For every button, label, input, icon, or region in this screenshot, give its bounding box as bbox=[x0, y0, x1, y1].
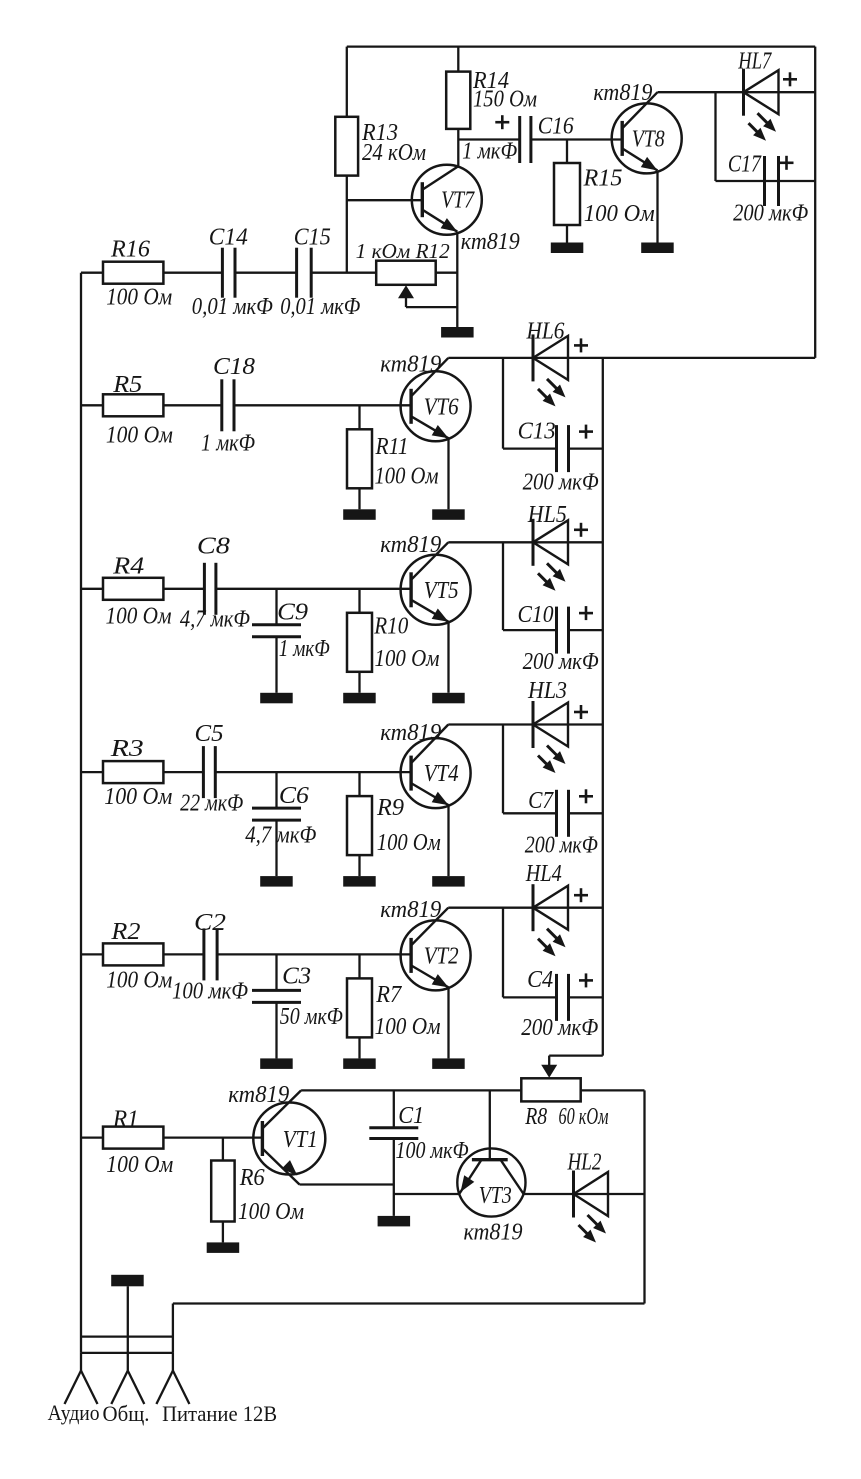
svg-text:C5: C5 bbox=[195, 721, 224, 747]
svg-text:4,7 мкФ: 4,7 мкФ bbox=[245, 823, 316, 849]
wire C16 to VT8 base bbox=[531, 138, 622, 140]
label C15 value bbox=[280, 294, 360, 320]
ground R15 bbox=[551, 243, 584, 254]
label VT6 type bbox=[380, 352, 441, 378]
wire R16 to C14 bbox=[163, 272, 222, 274]
label VT1 bbox=[283, 1127, 318, 1153]
label R3 bbox=[110, 736, 144, 762]
label VT2 bbox=[424, 943, 459, 969]
svg-text:R5: R5 bbox=[112, 372, 142, 398]
capacitor C7 bbox=[557, 790, 569, 837]
label VT1 type bbox=[228, 1082, 289, 1108]
wire C1 riser top bbox=[393, 1090, 395, 1127]
resistor R15 bbox=[554, 163, 580, 225]
label VT8 bbox=[632, 127, 665, 153]
wire HL7 row bbox=[658, 91, 816, 93]
ground C1 bbox=[378, 1216, 411, 1227]
label C9 value bbox=[279, 636, 330, 662]
transistor VT3 bbox=[457, 1148, 525, 1216]
wire C10 row bbox=[503, 629, 557, 631]
ground VT8 emitter bbox=[641, 243, 674, 254]
wire R11 to ground bbox=[358, 488, 360, 509]
wire VT7 emitter to ground bbox=[456, 232, 458, 327]
label Audio terminal bbox=[48, 1400, 100, 1425]
label C16 plus bbox=[495, 115, 509, 129]
wire R7 riser bbox=[358, 954, 360, 978]
wire HL3 junction riser bbox=[502, 725, 504, 814]
label HL6 plus bbox=[574, 338, 588, 352]
potentiometer R8 bbox=[521, 1078, 580, 1101]
wire R10 to ground bbox=[358, 672, 360, 693]
wire R5 row from bus bbox=[81, 404, 103, 406]
capacitor C14 bbox=[222, 248, 235, 298]
label VT5 bbox=[424, 578, 459, 604]
wire VT3 base riser bbox=[489, 1090, 491, 1159]
svg-text:150 Ом: 150 Ом bbox=[473, 87, 537, 113]
ground VT2 emitter bbox=[432, 1058, 465, 1069]
svg-text:100 мкФ: 100 мкФ bbox=[172, 979, 248, 1005]
wire C2 to VT2 base bbox=[217, 953, 411, 955]
LED HL2 light arrows bbox=[579, 1215, 607, 1243]
connector pin audio bbox=[65, 1353, 98, 1404]
connector pin power bbox=[156, 1353, 189, 1404]
wire C14 to C15 bbox=[235, 272, 297, 274]
wire R13 top riser bbox=[346, 47, 348, 117]
label R4 value bbox=[106, 604, 172, 630]
wire HL5 junction riser bbox=[502, 542, 504, 630]
label Power terminal bbox=[162, 1401, 277, 1426]
svg-text:1 мкФ: 1 мкФ bbox=[279, 636, 330, 662]
wire C15 to R12 bbox=[311, 272, 376, 274]
wire HL6 row bbox=[448, 357, 815, 359]
resistor R13 bbox=[335, 117, 358, 176]
wire R13 bottom to R16 row bbox=[346, 176, 348, 273]
svg-text:100 Ом: 100 Ом bbox=[375, 464, 439, 490]
ground VT6 emitter bbox=[432, 509, 465, 520]
label R2 bbox=[110, 919, 140, 945]
svg-text:100 Ом: 100 Ом bbox=[106, 423, 173, 449]
label HL5 bbox=[527, 502, 567, 528]
transistor VT6 bbox=[401, 358, 471, 441]
label C10 value bbox=[523, 649, 599, 675]
svg-text:C18: C18 bbox=[213, 354, 255, 380]
svg-text:кт819: кт819 bbox=[380, 897, 441, 923]
label R7 bbox=[375, 982, 402, 1008]
svg-text:100 Ом: 100 Ом bbox=[375, 1014, 441, 1040]
label C17 value bbox=[733, 201, 808, 227]
label C15 bbox=[294, 225, 331, 251]
svg-text:кт819: кт819 bbox=[461, 229, 520, 255]
label C1 bbox=[398, 1103, 424, 1129]
transistor VT1 bbox=[253, 1090, 325, 1184]
ground R9 bbox=[343, 876, 376, 887]
capacitor C8 bbox=[204, 563, 216, 615]
wire R16 row bbox=[81, 272, 103, 274]
svg-text:100 Ом: 100 Ом bbox=[375, 646, 440, 672]
label HL2 bbox=[567, 1150, 602, 1176]
svg-text:24 кОм: 24 кОм bbox=[362, 140, 426, 166]
svg-text:C4: C4 bbox=[527, 967, 553, 993]
svg-text:VT6: VT6 bbox=[424, 394, 459, 420]
label R9 bbox=[376, 795, 404, 821]
svg-text:C7: C7 bbox=[528, 788, 554, 814]
label C18 bbox=[213, 354, 255, 380]
wire R14 top riser bbox=[457, 47, 459, 72]
wire HL4 row bbox=[448, 907, 603, 909]
LED HL4 light arrows bbox=[538, 929, 566, 957]
label R8 bbox=[524, 1104, 547, 1130]
wire C5 to VT4 base bbox=[215, 771, 411, 773]
svg-text:200 мкФ: 200 мкФ bbox=[523, 649, 599, 675]
svg-text:кт819: кт819 bbox=[380, 720, 441, 746]
svg-text:R6: R6 bbox=[239, 1165, 265, 1191]
wire C13 row bbox=[503, 447, 557, 449]
capacitor C1 bbox=[369, 1128, 418, 1139]
wire R10 riser bbox=[358, 589, 360, 613]
svg-text:R7: R7 bbox=[375, 982, 402, 1008]
potentiometer R12 wiper arrow bbox=[398, 285, 457, 307]
wire C17 riser bbox=[714, 92, 716, 181]
svg-text:Аудио: Аудио bbox=[48, 1400, 100, 1425]
wire top supply line bbox=[347, 45, 815, 47]
LED HL7 bbox=[744, 69, 779, 116]
svg-text:50 мкФ: 50 мкФ bbox=[280, 1004, 343, 1030]
label C16 bbox=[538, 114, 574, 140]
capacitor C3 bbox=[252, 990, 301, 1002]
svg-text:C17: C17 bbox=[728, 152, 762, 178]
label R5 bbox=[112, 372, 142, 398]
label VT3 type bbox=[464, 1220, 523, 1246]
label VT8 type bbox=[593, 80, 652, 106]
svg-text:200 мкФ: 200 мкФ bbox=[525, 833, 598, 859]
svg-text:R3: R3 bbox=[110, 736, 144, 762]
svg-text:C3: C3 bbox=[282, 964, 311, 990]
wire VT5 emitter to ground bbox=[447, 622, 449, 693]
wire R6 riser bbox=[222, 1138, 224, 1161]
wire R15 riser bbox=[566, 140, 568, 164]
svg-text:C8: C8 bbox=[197, 534, 230, 560]
label C17 bbox=[728, 152, 762, 178]
label HL6 bbox=[526, 319, 565, 345]
label C10 plus bbox=[579, 606, 593, 620]
label R15 bbox=[582, 166, 622, 192]
resistor R7 bbox=[347, 978, 372, 1037]
label C5 value bbox=[180, 791, 243, 817]
wire R8 right bbox=[581, 1089, 645, 1091]
wire R14 bottom to VT7 collector bbox=[457, 129, 459, 166]
wire R2 row from bus bbox=[81, 953, 103, 955]
svg-text:HL7: HL7 bbox=[738, 49, 773, 75]
wire HL3 row bbox=[448, 723, 603, 725]
resistor R4 bbox=[103, 578, 163, 600]
wire C6 riser bbox=[275, 772, 277, 808]
label VT6 bbox=[424, 394, 459, 420]
svg-text:100 Ом: 100 Ом bbox=[584, 201, 655, 227]
LED HL5 bbox=[533, 519, 568, 566]
wire C3 riser bbox=[275, 954, 277, 990]
svg-text:C6: C6 bbox=[279, 783, 309, 809]
capacitor C15 bbox=[297, 248, 312, 298]
wire R1 to VT1 base bbox=[163, 1136, 262, 1138]
wire VT6 emitter to ground bbox=[447, 438, 449, 509]
wire R3 row from bus bbox=[81, 771, 103, 773]
ground C9 bbox=[260, 693, 293, 704]
resistor R6 bbox=[211, 1161, 234, 1222]
label R8 value bbox=[559, 1104, 609, 1130]
wire HL6 junction riser bbox=[502, 358, 504, 449]
wire HL4 junction riser bbox=[502, 908, 504, 998]
wire R5 to C18 bbox=[163, 404, 221, 406]
label R9 value bbox=[377, 830, 441, 856]
wire C13 to bus bbox=[569, 447, 603, 449]
svg-text:1 кОм R12: 1 кОм R12 bbox=[356, 239, 451, 263]
capacitor C16 bbox=[520, 116, 531, 163]
wire R1 row from bus bbox=[81, 1136, 103, 1138]
wire VT1 emitter row bbox=[300, 1183, 394, 1185]
LED HL3 light arrows bbox=[538, 746, 566, 774]
wire C10 to bus bbox=[569, 629, 603, 631]
label C2 value bbox=[172, 979, 248, 1005]
svg-text:200 мкФ: 200 мкФ bbox=[733, 201, 808, 227]
connector box bottom line bbox=[81, 1352, 173, 1354]
svg-text:кт819: кт819 bbox=[464, 1220, 523, 1246]
label C7 plus bbox=[579, 789, 593, 803]
label R16 value bbox=[106, 285, 172, 311]
label VT7 type bbox=[461, 229, 520, 255]
label R1 bbox=[112, 1107, 139, 1133]
svg-text:C9: C9 bbox=[277, 600, 308, 626]
label C3 value bbox=[280, 1004, 343, 1030]
wire R3 to C5 bbox=[163, 771, 203, 773]
label R11 bbox=[375, 434, 409, 460]
ground VT4 emitter bbox=[432, 876, 465, 887]
LED HL7 light arrows bbox=[749, 113, 777, 141]
resistor R11 bbox=[347, 429, 372, 488]
label HL3 bbox=[527, 678, 567, 704]
svg-text:HL5: HL5 bbox=[527, 502, 567, 528]
svg-text:Питание 12В: Питание 12В bbox=[162, 1401, 277, 1426]
wire common riser bbox=[127, 1286, 129, 1353]
svg-text:R16: R16 bbox=[110, 237, 150, 263]
label C4 value bbox=[521, 1015, 598, 1041]
svg-text:VT8: VT8 bbox=[632, 127, 665, 153]
wire VT7 base bbox=[347, 199, 423, 201]
svg-text:R2: R2 bbox=[110, 919, 140, 945]
label R12 bbox=[356, 239, 451, 263]
wire VT3 emitter row bbox=[394, 1193, 459, 1195]
svg-text:HL3: HL3 bbox=[527, 678, 567, 704]
ground VT7 emitter bbox=[441, 327, 474, 338]
wire R9 riser bbox=[358, 772, 360, 796]
svg-text:200 мкФ: 200 мкФ bbox=[521, 1015, 598, 1041]
potentiometer R8 wiper bbox=[541, 1056, 603, 1078]
svg-text:VT3: VT3 bbox=[479, 1183, 512, 1209]
LED HL6 light arrows bbox=[538, 379, 566, 407]
label R7 value bbox=[375, 1014, 441, 1040]
label C1 value bbox=[396, 1138, 469, 1164]
label R10 bbox=[373, 614, 408, 640]
label VT2 type bbox=[380, 897, 441, 923]
label R5 value bbox=[106, 423, 173, 449]
label HL7 plus bbox=[783, 72, 797, 86]
connector pin common bbox=[111, 1353, 144, 1404]
label HL5 plus bbox=[574, 523, 588, 537]
capacitor C9 bbox=[252, 625, 301, 637]
label HL4 plus bbox=[574, 888, 588, 902]
label C18 value bbox=[201, 431, 255, 457]
label C3 bbox=[282, 964, 311, 990]
svg-text:100 Ом: 100 Ом bbox=[377, 830, 441, 856]
svg-text:C1: C1 bbox=[398, 1103, 424, 1129]
label R13 bbox=[361, 120, 398, 146]
svg-text:0,01 мкФ: 0,01 мкФ bbox=[192, 294, 273, 320]
label R14 value bbox=[473, 87, 537, 113]
svg-text:R10: R10 bbox=[373, 614, 408, 640]
wire C7 to bus bbox=[569, 812, 603, 814]
wire VT4 emitter to ground bbox=[447, 805, 449, 876]
potentiometer R12 bbox=[376, 261, 436, 285]
label C7 bbox=[528, 788, 554, 814]
wire R7 to ground bbox=[358, 1037, 360, 1058]
svg-text:VT2: VT2 bbox=[424, 943, 459, 969]
svg-text:R15: R15 bbox=[582, 166, 622, 192]
wire HL5 row bbox=[448, 541, 603, 543]
LED HL2 bbox=[574, 1171, 609, 1218]
wire C8 to VT5 base bbox=[216, 588, 411, 590]
wire VT3 collector to HL2 bbox=[524, 1193, 645, 1195]
wire C16 left bbox=[458, 138, 519, 140]
svg-text:100 Ом: 100 Ом bbox=[238, 1199, 304, 1225]
resistor R2 bbox=[103, 943, 163, 965]
label C8 bbox=[197, 534, 230, 560]
svg-text:R8: R8 bbox=[524, 1104, 547, 1130]
transistor VT4 bbox=[401, 725, 471, 809]
resistor R3 bbox=[103, 761, 163, 783]
svg-text:кт819: кт819 bbox=[380, 352, 441, 378]
ground C6 bbox=[260, 876, 293, 887]
wire C7 row bbox=[503, 812, 557, 814]
resistor R16 bbox=[103, 262, 163, 284]
wire supply rail bbox=[173, 1302, 645, 1304]
ground VT5 emitter bbox=[432, 693, 465, 704]
label R3 value bbox=[104, 784, 172, 810]
svg-text:1 мкФ: 1 мкФ bbox=[462, 139, 517, 165]
transistor VT2 bbox=[401, 908, 471, 991]
label C2 bbox=[194, 910, 226, 936]
label C8 value bbox=[180, 607, 250, 633]
capacitor C6 bbox=[252, 808, 301, 820]
label C6 value bbox=[245, 823, 316, 849]
wire right vertical to supply rail bbox=[643, 1090, 645, 1303]
wire R6 to ground bbox=[222, 1222, 224, 1243]
svg-text:C13: C13 bbox=[518, 419, 556, 445]
label C13 plus bbox=[579, 425, 593, 439]
resistor R1 bbox=[103, 1127, 163, 1149]
svg-text:C10: C10 bbox=[518, 602, 554, 628]
label C13 value bbox=[523, 470, 599, 496]
svg-text:60 кОм: 60 кОм bbox=[559, 1104, 609, 1130]
capacitor C4 bbox=[557, 974, 569, 1021]
label C9 bbox=[277, 600, 308, 626]
label R14 bbox=[472, 68, 509, 94]
label VT4 bbox=[424, 761, 459, 787]
svg-text:HL6: HL6 bbox=[526, 319, 565, 345]
svg-text:Общ.: Общ. bbox=[103, 1401, 150, 1426]
LED HL5 light arrows bbox=[538, 563, 566, 591]
capacitor C18 bbox=[222, 379, 234, 431]
label C13 bbox=[518, 419, 556, 445]
label C10 bbox=[518, 602, 554, 628]
svg-text:100 Ом: 100 Ом bbox=[106, 285, 172, 311]
ground R10 bbox=[343, 693, 376, 704]
svg-text:VT1: VT1 bbox=[283, 1127, 318, 1153]
svg-text:HL2: HL2 bbox=[567, 1150, 602, 1176]
label R6 value bbox=[238, 1199, 304, 1225]
label VT4 type bbox=[380, 720, 441, 746]
svg-text:1 мкФ: 1 мкФ bbox=[201, 431, 255, 457]
svg-text:100 Ом: 100 Ом bbox=[106, 604, 172, 630]
transistor VT7 bbox=[412, 165, 482, 235]
label R10 value bbox=[375, 646, 440, 672]
capacitor C17 bbox=[765, 156, 779, 206]
wire C9 to ground bbox=[275, 637, 277, 693]
svg-text:R1: R1 bbox=[112, 1107, 139, 1133]
label C14 value bbox=[192, 294, 273, 320]
svg-text:VT7: VT7 bbox=[441, 188, 475, 214]
transistor VT8 bbox=[612, 92, 682, 173]
svg-text:R11: R11 bbox=[375, 434, 409, 460]
wire C18 to VT6 base bbox=[234, 404, 411, 406]
label R4 bbox=[112, 554, 144, 580]
wire VT2 emitter to ground bbox=[447, 987, 449, 1058]
svg-text:100 Ом: 100 Ом bbox=[104, 784, 172, 810]
wire C17 row bbox=[716, 180, 816, 182]
wire R2 to C2 bbox=[163, 953, 204, 955]
svg-text:200 мкФ: 200 мкФ bbox=[523, 470, 599, 496]
wire R4 to C8 bbox=[163, 588, 204, 590]
svg-text:22 мкФ: 22 мкФ bbox=[180, 791, 243, 817]
svg-text:100 Ом: 100 Ом bbox=[106, 968, 172, 994]
svg-text:VT5: VT5 bbox=[424, 578, 459, 604]
ground C3 bbox=[260, 1058, 293, 1069]
label R16 bbox=[110, 237, 150, 263]
connector box top line bbox=[81, 1335, 173, 1337]
svg-text:100 мкФ: 100 мкФ bbox=[396, 1138, 469, 1164]
label VT3 bbox=[479, 1183, 512, 1209]
LED HL6 bbox=[533, 334, 568, 381]
svg-text:кт819: кт819 bbox=[593, 80, 652, 106]
label C16 value bbox=[462, 139, 517, 165]
label HL7 bbox=[738, 49, 773, 75]
svg-text:VT4: VT4 bbox=[424, 761, 459, 787]
label HL4 bbox=[525, 861, 562, 887]
svg-text:HL4: HL4 bbox=[525, 861, 562, 887]
capacitor C10 bbox=[557, 607, 569, 654]
label C6 bbox=[279, 783, 309, 809]
wire C3 to ground bbox=[275, 1002, 277, 1058]
resistor R10 bbox=[347, 613, 372, 672]
label Common terminal bbox=[103, 1401, 150, 1426]
svg-text:кт819: кт819 bbox=[380, 532, 441, 558]
svg-text:4,7 мкФ: 4,7 мкФ bbox=[180, 607, 250, 633]
wire C6 to ground bbox=[275, 820, 277, 876]
svg-text:кт819: кт819 bbox=[228, 1082, 289, 1108]
wire R9 to ground bbox=[358, 855, 360, 876]
capacitor C5 bbox=[203, 746, 215, 798]
svg-text:C15: C15 bbox=[294, 225, 331, 251]
svg-text:100 Ом: 100 Ом bbox=[106, 1152, 173, 1178]
LED HL4 bbox=[533, 884, 568, 931]
